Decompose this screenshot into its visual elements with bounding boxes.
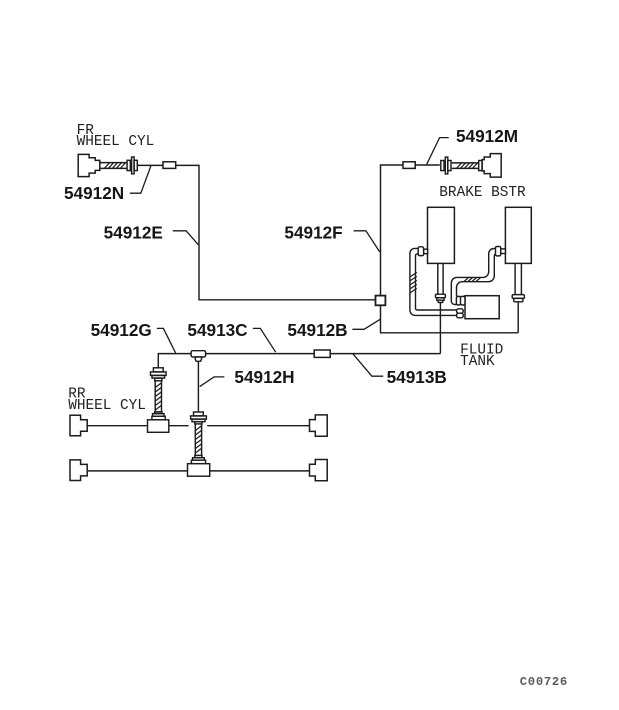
- union joint on pipe 54912E: [163, 162, 176, 169]
- pipe from tee down to hose 54912H: [197, 361, 199, 412]
- pipe from right booster bottom: [515, 263, 521, 294]
- svg-text:54912B: 54912B: [287, 320, 347, 340]
- svg-text:54912F: 54912F: [284, 223, 342, 243]
- pipe bottom run from junction to right booster: [381, 305, 519, 333]
- brake booster left body: [428, 207, 455, 263]
- leader 54912G: [157, 328, 176, 353]
- flare fitting under right booster: [512, 295, 524, 302]
- pipe from right booster fitting down to bottom run: [517, 302, 519, 333]
- union joint on main rear pipe: [314, 350, 330, 357]
- svg-text:54913C: 54913C: [187, 320, 247, 340]
- leader 54912H: [200, 377, 225, 387]
- hose 54912G assembly: [151, 368, 167, 417]
- pipe from left booster fitting down to main rear line: [439, 303, 441, 354]
- pipe from left booster bottom: [438, 263, 443, 294]
- svg-text:54913B: 54913B: [387, 367, 447, 387]
- tee block on rear line 2 (54912H): [188, 460, 210, 476]
- fitting at FR hose end: [127, 157, 137, 174]
- svg-text:54912N: 54912N: [64, 183, 124, 203]
- main rear pipe 54913C run: [158, 354, 440, 368]
- fitting at 54912M hose end: [479, 161, 482, 171]
- vacuum hose right (booster to tank upper port): [451, 249, 495, 305]
- tee block on rear line 1 (54912G): [148, 416, 169, 432]
- nipple on right booster side: [496, 247, 506, 256]
- union joint on pipe 54912F: [403, 162, 415, 169]
- svg-text:54912E: 54912E: [104, 223, 163, 243]
- rear line 2: [88, 470, 310, 472]
- connector RR wheel cyl lower right: [310, 460, 328, 481]
- leader 54912E: [173, 231, 199, 245]
- pipe 54912E run right then down then right to junction: [176, 165, 375, 299]
- tee fitting 54913C: [191, 351, 206, 362]
- vacuum hose left (booster to tank lower port): [410, 248, 457, 315]
- leader 54912N: [130, 166, 151, 193]
- svg-text:54912H: 54912H: [234, 367, 294, 387]
- hose 54912H assembly: [191, 412, 207, 460]
- hose 54912M flex section: [452, 163, 479, 169]
- leader 54912M: [427, 138, 449, 165]
- leader 54913B: [353, 354, 383, 376]
- leader 54912B: [352, 319, 380, 329]
- svg-text:TANK: TANK: [460, 354, 495, 370]
- tank upper port nipples: [456, 296, 465, 305]
- connector RR wheel cyl upper left: [70, 415, 87, 436]
- connector RR wheel cyl upper right: [310, 415, 328, 436]
- hose 54912N flex section: [100, 163, 127, 169]
- junction block 54912B: [376, 296, 386, 306]
- tank lower port nipples: [457, 309, 464, 318]
- svg-text:WHEEL CYL: WHEEL CYL: [68, 398, 146, 414]
- svg-text:BRAKE BSTR: BRAKE BSTR: [439, 185, 526, 201]
- connector brake booster side (54912M): [482, 154, 501, 178]
- rear line 1: [87, 425, 309, 427]
- pipe 54912E from FR hose to union: [137, 164, 163, 166]
- pipe 54912F vertical and top run: [381, 165, 440, 296]
- nipple on left booster side: [418, 247, 427, 256]
- svg-text:54912G: 54912G: [91, 320, 152, 340]
- connector FR wheel cylinder: [78, 154, 100, 176]
- svg-text:C00726: C00726: [520, 675, 568, 689]
- svg-text:WHEEL CYL: WHEEL CYL: [77, 134, 155, 150]
- leader 54912F: [354, 231, 380, 252]
- connector RR wheel cyl lower left: [70, 460, 87, 481]
- flare fitting under left booster: [436, 294, 446, 302]
- fitting at 54912M hose start: [441, 157, 451, 174]
- svg-text:54912M: 54912M: [456, 126, 518, 146]
- brake booster right body: [505, 207, 531, 263]
- leader 54913C: [253, 328, 276, 352]
- fluid tank body: [465, 296, 499, 319]
